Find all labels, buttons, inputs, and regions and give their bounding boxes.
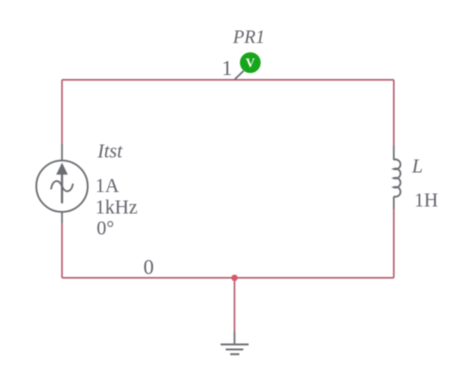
probe PR1 stem xyxy=(235,71,244,79)
svg-text:PR1: PR1 xyxy=(232,28,265,48)
wire right lower xyxy=(393,209,395,278)
svg-text:1A: 1A xyxy=(95,176,119,197)
wire ground drop xyxy=(234,278,236,332)
svg-text:Itst: Itst xyxy=(97,142,124,163)
svg-text:L: L xyxy=(411,156,423,177)
wire right upper xyxy=(393,80,395,146)
junction dot node 0 xyxy=(231,275,237,281)
svg-text:0°: 0° xyxy=(97,219,115,240)
wire top (node 1) xyxy=(62,79,394,81)
svg-text:1: 1 xyxy=(222,56,233,80)
svg-text:V: V xyxy=(246,56,256,70)
svg-text:0: 0 xyxy=(143,255,154,279)
wire left upper xyxy=(61,80,63,144)
wire left lower xyxy=(61,223,63,278)
wire bottom (node 0) xyxy=(62,277,394,279)
ground xyxy=(221,332,249,354)
inductor L xyxy=(394,146,401,209)
svg-text:1kHz: 1kHz xyxy=(95,197,138,218)
current source Itst xyxy=(36,144,87,223)
probe PR1 body xyxy=(240,52,261,73)
svg-text:1H: 1H xyxy=(414,191,438,212)
